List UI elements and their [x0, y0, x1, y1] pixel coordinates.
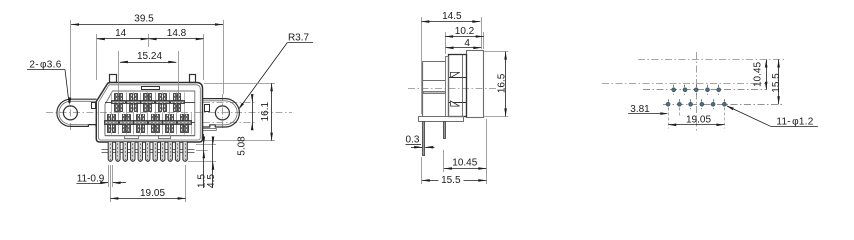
svg-text:19.05: 19.05 [686, 114, 711, 125]
svg-text:4.5: 4.5 [206, 174, 217, 188]
svg-text:39.5: 39.5 [134, 14, 154, 25]
svg-text:10.45: 10.45 [753, 62, 764, 87]
svg-text:10.2: 10.2 [455, 26, 475, 37]
svg-text:15.24: 15.24 [137, 51, 162, 62]
svg-text:5.08: 5.08 [237, 136, 248, 156]
svg-text:14: 14 [115, 28, 127, 39]
svg-text:10.45: 10.45 [452, 158, 477, 169]
svg-text:0.3: 0.3 [406, 135, 420, 146]
svg-text:15.5: 15.5 [441, 175, 461, 186]
svg-text:19.05: 19.05 [140, 188, 165, 199]
svg-text:14.5: 14.5 [442, 11, 462, 22]
svg-text:11- φ1.2: 11- φ1.2 [776, 116, 813, 127]
svg-text:2- φ3.6: 2- φ3.6 [29, 60, 61, 71]
svg-text:14.8: 14.8 [167, 28, 187, 39]
svg-text:16.1: 16.1 [260, 102, 271, 122]
svg-text:4: 4 [464, 38, 470, 49]
svg-text:15.5: 15.5 [771, 73, 782, 93]
svg-text:R3.7: R3.7 [288, 33, 310, 44]
svg-text:16.5: 16.5 [496, 73, 507, 93]
